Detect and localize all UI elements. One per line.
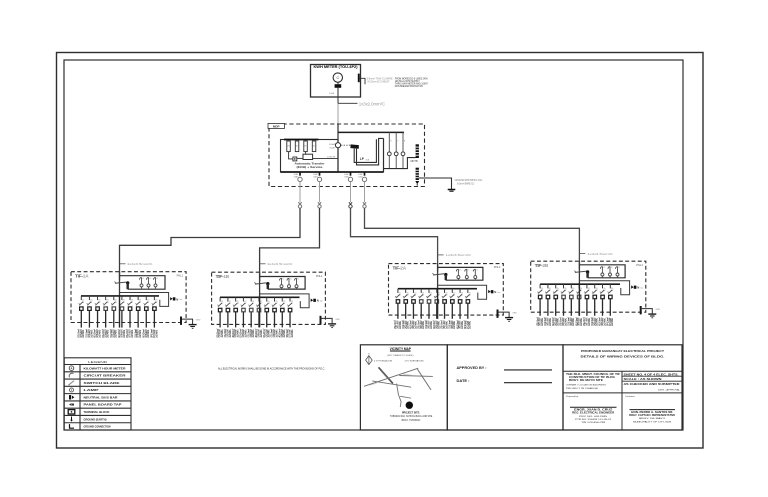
fuse element bbox=[600, 267, 605, 278]
svg-text:15: 15 bbox=[603, 267, 605, 269]
branch circuit 4 bbox=[418, 289, 425, 319]
branch circuit 6 bbox=[576, 284, 583, 316]
interlock dashed link bbox=[341, 144, 351, 146]
svg-text:TIF-1A: TIF-1A bbox=[75, 274, 89, 279]
riser symbol feeder 3 bbox=[349, 187, 438, 272]
svg-text:DATE :: DATE : bbox=[457, 379, 470, 383]
circuit label 6 bbox=[574, 317, 583, 326]
svg-text:DETAILS OF WIRING DEVICES OF B: DETAILS OF WIRING DEVICES OF BLDG. bbox=[581, 355, 665, 359]
svg-text:15: 15 bbox=[290, 279, 292, 281]
ATS compartment box bbox=[281, 140, 339, 173]
panel corner tag bbox=[177, 273, 184, 277]
svg-text:15: 15 bbox=[476, 270, 478, 272]
svg-text:SCALE : AS SHOWN: SCALE : AS SHOWN bbox=[624, 378, 663, 381]
panel main breaker bbox=[114, 281, 129, 284]
branch circuit 3 bbox=[553, 284, 560, 316]
fuse cutout box bbox=[120, 276, 166, 290]
ground rod electrode bbox=[448, 190, 456, 192]
legend row 6 bbox=[69, 403, 122, 407]
branch circuit 3 bbox=[411, 289, 418, 319]
sheet outer border bbox=[57, 53, 704, 449]
panel name tag MDP bbox=[268, 123, 285, 128]
fuse element bbox=[139, 277, 144, 288]
circuit label 9 bbox=[141, 329, 150, 338]
circuit label 4 bbox=[416, 320, 425, 329]
svg-text:TIF-2A: TIF-2A bbox=[393, 265, 407, 270]
svg-text:GROUND ROD 5/8"Ø x 3.0m: GROUND ROD 5/8"Ø x 3.0m bbox=[455, 180, 483, 182]
svg-text:TERMINAL BLOCK: TERMINAL BLOCK bbox=[84, 410, 110, 414]
svg-text:1x4x3.5mm²C: 1x4x3.5mm²C bbox=[267, 262, 293, 266]
branch circuit 3 bbox=[95, 296, 102, 328]
svg-text:1x3x2.0mm²C: 1x3x2.0mm²C bbox=[359, 102, 385, 107]
svg-text:PRC NO. 0012345: PRC NO. 0012345 bbox=[579, 416, 608, 418]
svg-text:GRD: GRD bbox=[656, 309, 661, 311]
panel feed conductor bbox=[578, 261, 580, 284]
riser symbol feeder 4 bbox=[363, 187, 580, 270]
neutral loop wiring bbox=[579, 281, 629, 295]
circuit label 6 bbox=[117, 329, 126, 338]
feeder breaker F1 bbox=[294, 172, 303, 187]
feed through conductor bbox=[578, 284, 580, 316]
panel main breaker bbox=[254, 282, 269, 285]
service feeder wire bbox=[337, 97, 339, 124]
neutral bar N bbox=[170, 297, 183, 301]
svg-text:15: 15 bbox=[156, 278, 158, 280]
svg-text:REG. ELECTRICAL ENGINEER: REG. ELECTRICAL ENGINEER bbox=[572, 412, 614, 415]
circuit label 7 bbox=[262, 329, 271, 338]
legend row 9 bbox=[70, 424, 111, 428]
feeder size tag bbox=[120, 262, 154, 266]
circuit label 4 bbox=[239, 329, 248, 338]
panel feed conductor bbox=[437, 264, 439, 289]
breaker to fuse box jumper bbox=[267, 284, 269, 289]
svg-text:GRD: GRD bbox=[512, 313, 517, 315]
panel bus bbox=[220, 296, 300, 298]
branch circuit 4 bbox=[103, 296, 110, 328]
svg-text:1x4x3.5mm²C: 1x4x3.5mm²C bbox=[127, 262, 153, 266]
neutral loop wiring bbox=[120, 293, 169, 307]
svg-text:◂ TO SURIGAO RD.: ◂ TO SURIGAO RD. bbox=[405, 359, 425, 362]
legend table bbox=[64, 358, 131, 430]
svg-text:GROUND CONNECTION: GROUND CONNECTION bbox=[84, 425, 111, 429]
svg-text:PROPOSED BARANGAY ELECTRICAL P: PROPOSED BARANGAY ELECTRICAL PROJECT bbox=[581, 349, 664, 353]
branch circuit 7 bbox=[127, 296, 134, 328]
approval box bbox=[447, 345, 563, 430]
branch circuit 10 bbox=[287, 297, 294, 327]
branch circuit 4 bbox=[241, 297, 248, 327]
svg-text:Automatic Transfer: Automatic Transfer bbox=[295, 161, 325, 165]
svg-text:(ECB) + Service: (ECB) + Service bbox=[297, 165, 324, 169]
branch circuit 8 bbox=[135, 296, 142, 328]
panel feed conductor bbox=[259, 272, 261, 297]
branch circuit 8 bbox=[272, 297, 279, 327]
panel main breaker bbox=[574, 270, 589, 273]
panel ground electrode bbox=[181, 317, 201, 329]
branch circuit 1 bbox=[395, 289, 402, 319]
branch circuit 6 bbox=[434, 289, 441, 319]
panel bus bbox=[398, 288, 477, 290]
meter test block bbox=[335, 82, 342, 87]
svg-text:PROJECT IN CHARGE: PROJECT IN CHARGE bbox=[566, 387, 599, 390]
svg-text:PNL4: PNL4 bbox=[636, 263, 643, 267]
svg-text:Prepared by :: Prepared by : bbox=[566, 395, 580, 398]
fuse element bbox=[465, 269, 470, 280]
branch circuit 8 bbox=[592, 284, 599, 316]
panel main breaker bbox=[432, 273, 447, 276]
branch circuit 1 bbox=[79, 296, 86, 328]
panel bus bbox=[540, 283, 620, 285]
svg-text:MDTB: MDTB bbox=[411, 159, 418, 163]
sheet data block bbox=[624, 373, 681, 391]
legend row 1 bbox=[69, 366, 125, 371]
svg-text:bar: bar bbox=[498, 291, 501, 294]
circuit label 2 bbox=[223, 329, 232, 338]
map roads bbox=[364, 367, 433, 407]
svg-text:15: 15 bbox=[297, 279, 299, 281]
contactor MC3 bbox=[304, 141, 308, 152]
title block frame bbox=[563, 345, 682, 430]
branch circuit 4 bbox=[561, 284, 568, 316]
circuit label 3 bbox=[93, 329, 102, 338]
svg-text:15: 15 bbox=[282, 279, 284, 281]
project site dot bbox=[406, 402, 413, 409]
legend row 3 bbox=[68, 381, 119, 386]
svg-text:NEUTRAL BUS BAR: NEUTRAL BUS BAR bbox=[84, 395, 118, 399]
svg-text:N: N bbox=[176, 297, 178, 301]
svg-text:GRD: GRD bbox=[196, 320, 201, 322]
legend row 4 bbox=[70, 388, 99, 392]
branch circuit 7 bbox=[442, 289, 449, 319]
svg-text:1x4x3.5mm²C: 1x4x3.5mm²C bbox=[587, 252, 613, 256]
svg-text:IN 25mm Ø CONDUIT: IN 25mm Ø CONDUIT bbox=[368, 82, 391, 84]
svg-text:PROJECT SITE:: PROJECT SITE: bbox=[402, 412, 420, 415]
svg-text:Conforme :: Conforme : bbox=[625, 395, 636, 398]
branch circuit 5 bbox=[569, 284, 576, 316]
general note bbox=[218, 367, 325, 371]
feeder size tag bbox=[260, 262, 294, 266]
panel ground electrode bbox=[641, 306, 661, 318]
circuit label 5 bbox=[424, 320, 433, 329]
map caption bbox=[390, 412, 433, 422]
svg-text:600AF: 600AF bbox=[329, 143, 336, 146]
circuit label 9 bbox=[598, 317, 607, 326]
svg-text:C: C bbox=[336, 76, 339, 80]
circuit label 7 bbox=[440, 320, 449, 329]
neutral bar N bbox=[311, 299, 324, 303]
service spec note bbox=[395, 77, 428, 88]
fuse element bbox=[146, 277, 151, 288]
feeder breaker F4 bbox=[358, 172, 367, 187]
ATS caption bbox=[295, 161, 325, 169]
panel label TIF-1A bbox=[75, 274, 89, 279]
circuit label 4 bbox=[559, 317, 568, 326]
svg-text:AS CHECKED AND SUBMITTED: AS CHECKED AND SUBMITTED bbox=[624, 383, 681, 386]
svg-text:15: 15 bbox=[149, 278, 151, 280]
branch circuit 2 bbox=[87, 296, 94, 328]
panel ground electrode bbox=[498, 310, 518, 322]
neutral loop wiring bbox=[438, 285, 487, 299]
svg-text:2x20AWG: 2x20AWG bbox=[610, 318, 614, 326]
circuit label 2 bbox=[543, 317, 552, 326]
fuse cutout box bbox=[438, 267, 483, 280]
svg-text:LEGEND: LEGEND bbox=[88, 360, 108, 364]
svg-text:GRD: GRD bbox=[335, 319, 340, 321]
feed through conductor bbox=[259, 297, 261, 327]
svg-text:BRGY. CAPTAIN / REPRESENTATIVE: BRGY. CAPTAIN / REPRESENTATIVE bbox=[629, 414, 676, 417]
contactor MC4 bbox=[312, 141, 316, 152]
branch circuit 7 bbox=[584, 284, 591, 316]
circuit label 8 bbox=[447, 320, 456, 329]
svg-text:TUBORAN FLD. SCHOOL BLDG. AND: TUBORAN FLD. SCHOOL BLDG. AND SITE bbox=[390, 415, 433, 418]
aux contact bbox=[293, 157, 297, 161]
branch circuit 10 bbox=[608, 284, 615, 316]
fuse element bbox=[615, 267, 620, 278]
svg-text:500AT: 500AT bbox=[329, 146, 336, 149]
circuit label 1 bbox=[215, 329, 224, 338]
circuit label 10 bbox=[606, 317, 615, 326]
grounding conductor run bbox=[419, 178, 452, 189]
fuse element bbox=[294, 278, 299, 289]
svg-text:bar: bar bbox=[320, 300, 323, 303]
svg-text:HON. PEDRO A. SANTOS SR.: HON. PEDRO A. SANTOS SR. bbox=[631, 411, 673, 414]
svg-text:8.0mm² BARE CU: 8.0mm² BARE CU bbox=[457, 183, 475, 186]
fuse element bbox=[279, 278, 284, 289]
svg-text:BRGY. DE MAYO: BRGY. DE MAYO bbox=[639, 417, 665, 420]
meter M1 dial bbox=[333, 73, 342, 82]
legend row 2 bbox=[69, 373, 125, 377]
svg-text:(NOT DRAWN TO SCALE): (NOT DRAWN TO SCALE) bbox=[387, 354, 413, 357]
circuit label 10 bbox=[285, 329, 294, 338]
branch circuit 6 bbox=[119, 296, 126, 328]
meter rating label bbox=[329, 92, 334, 95]
svg-text:TIN 123-456-789: TIN 123-456-789 bbox=[581, 422, 606, 424]
branch circuit 8 bbox=[449, 289, 456, 319]
main panel MDP dashed enclosure bbox=[269, 124, 425, 187]
panel corner tag bbox=[494, 265, 501, 269]
svg-text:PNL3: PNL3 bbox=[494, 265, 501, 269]
control relay coil K1 bbox=[303, 154, 313, 159]
svg-text:VICINITY MAP: VICINITY MAP bbox=[390, 347, 412, 351]
fuse element bbox=[473, 269, 478, 280]
prepared by cell bbox=[566, 395, 617, 424]
panel label TIF-1B bbox=[216, 274, 230, 279]
panel TIF-2A dashed enclosure bbox=[389, 264, 504, 316]
circuit label 8 bbox=[590, 317, 599, 326]
pilot lamp bus bbox=[338, 131, 404, 133]
svg-text:KWH METER (TOU-4P2): KWH METER (TOU-4P2) bbox=[314, 65, 358, 69]
svg-text:THE BLK. MNGT. COUNCIL OF TIF: THE BLK. MNGT. COUNCIL OF TIF bbox=[566, 373, 621, 376]
feed through conductor bbox=[437, 289, 439, 319]
control label bbox=[327, 155, 336, 158]
svg-text:2-8mm² THW CU WIRE: 2-8mm² THW CU WIRE bbox=[367, 78, 394, 81]
svg-text:MAIN BREAKER PROTECTION: MAIN BREAKER PROTECTION bbox=[395, 85, 423, 88]
owner block bbox=[566, 373, 621, 390]
neutral loop wiring bbox=[260, 294, 310, 308]
terminal block MDTB bbox=[416, 144, 419, 158]
svg-text:15: 15 bbox=[459, 270, 461, 272]
svg-text:100A: 100A bbox=[329, 92, 334, 95]
panel TIF-1A dashed enclosure bbox=[71, 272, 186, 323]
pilot lamp R bbox=[387, 132, 392, 168]
fuse cutout box bbox=[579, 265, 625, 278]
svg-text:MDP: MDP bbox=[273, 124, 280, 128]
svg-text:DWG - APPROVAL: DWG - APPROVAL bbox=[658, 389, 681, 392]
circuit label 1 bbox=[77, 329, 86, 338]
breaker to fuse box jumper bbox=[586, 272, 588, 278]
circuit label 9 bbox=[455, 320, 464, 329]
circuit label 2 bbox=[85, 329, 94, 338]
svg-text:CONSTRUCTION OF TIF BLDG: CONSTRUCTION OF TIF BLDG bbox=[569, 377, 615, 379]
panel corner tag bbox=[636, 263, 643, 267]
circuit label 10 bbox=[150, 329, 159, 338]
contactor blade bbox=[350, 144, 359, 148]
breaker to fuse box jumper bbox=[445, 275, 447, 281]
svg-text:bar: bar bbox=[641, 286, 644, 289]
contactor MC1 bbox=[287, 141, 291, 152]
branch circuit 2 bbox=[545, 284, 552, 316]
circuit label 5 bbox=[109, 329, 118, 338]
circuit label 5 bbox=[246, 329, 255, 338]
svg-text:PNL1: PNL1 bbox=[177, 273, 184, 277]
svg-text:15: 15 bbox=[618, 267, 620, 269]
branch circuit 1 bbox=[217, 297, 224, 327]
feeder breaker F2 bbox=[313, 172, 322, 187]
svg-text:1x4x3.5mm²C: 1x4x3.5mm²C bbox=[446, 253, 472, 257]
feeder size tag bbox=[579, 252, 613, 256]
feeder breaker F3 bbox=[344, 172, 353, 187]
circuit label 3 bbox=[551, 317, 560, 326]
svg-text:2x20AWG: 2x20AWG bbox=[154, 330, 158, 338]
road names bbox=[369, 371, 413, 387]
svg-text:APPROVED BY :: APPROVED BY : bbox=[457, 366, 487, 370]
MDTB label bbox=[411, 159, 418, 163]
branch circuit 9 bbox=[457, 289, 464, 319]
circuit label 3 bbox=[409, 320, 418, 329]
circuit label 1 bbox=[393, 320, 402, 329]
fuse element bbox=[153, 277, 158, 288]
circuit label 10 bbox=[463, 320, 472, 329]
vicinity map box bbox=[360, 345, 447, 430]
neutral bar N bbox=[488, 290, 501, 294]
feeder size leader bbox=[338, 102, 385, 107]
svg-text:to MDTB: to MDTB bbox=[327, 155, 336, 158]
circuit label 3 bbox=[231, 329, 240, 338]
branch circuit 10 bbox=[465, 289, 472, 319]
svg-text:TIF-2B: TIF-2B bbox=[535, 263, 549, 268]
panel label TIF-2B bbox=[535, 263, 549, 268]
ground note bbox=[455, 180, 483, 186]
fuse element bbox=[608, 267, 613, 278]
wire meter to box bottom bbox=[337, 88, 339, 97]
panel corner tag bbox=[316, 274, 323, 278]
svg-text:CIRCUIT BREAKER: CIRCUIT BREAKER bbox=[84, 374, 126, 378]
svg-text:N: N bbox=[494, 290, 496, 294]
ground terminal bar bbox=[415, 168, 419, 186]
svg-text:15: 15 bbox=[467, 270, 469, 272]
branch circuit 2 bbox=[403, 289, 410, 319]
conforme cell bbox=[625, 395, 676, 423]
fuse element bbox=[287, 278, 292, 289]
circuit label 5 bbox=[567, 317, 576, 326]
kwh meter enclosure bbox=[311, 65, 361, 98]
lamp collector wire bbox=[384, 158, 416, 169]
panel TIF-2B dashed enclosure bbox=[531, 261, 646, 312]
svg-text:MUNICIPALITY OF CITY, SDN: MUNICIPALITY OF CITY, SDN bbox=[633, 420, 672, 423]
fuse cutout box bbox=[260, 277, 306, 290]
LP tag bbox=[360, 157, 370, 162]
sheet inner border bbox=[64, 60, 683, 430]
main breaker CB-M bbox=[329, 143, 341, 150]
circuit label 6 bbox=[254, 329, 263, 338]
svg-text:ENGR. JUAN D. CRUZ: ENGR. JUAN D. CRUZ bbox=[574, 409, 613, 412]
fuse element bbox=[456, 269, 461, 280]
svg-text:SHEET NO. 4 OF 4 ELEC. SHTS.: SHEET NO. 4 OF 4 ELEC. SHTS. bbox=[624, 373, 680, 376]
legend row 8 bbox=[70, 417, 106, 422]
panel feed conductor bbox=[119, 272, 121, 296]
control wiring bbox=[297, 157, 338, 159]
svg-text:BRGY. TUBORAN: BRGY. TUBORAN bbox=[402, 419, 421, 422]
branch circuit 6 bbox=[256, 297, 263, 327]
circuit label 8 bbox=[133, 329, 142, 338]
branch circuit 3 bbox=[233, 297, 240, 327]
svg-text:2x20AWG: 2x20AWG bbox=[468, 321, 472, 329]
branch circuit 2 bbox=[225, 297, 232, 327]
circuit label 9 bbox=[277, 329, 286, 338]
branch circuit 1 bbox=[537, 284, 544, 316]
map direction labels bbox=[374, 359, 425, 362]
circuit label 7 bbox=[582, 317, 591, 326]
svg-text:◂ TO POBLACION: ◂ TO POBLACION bbox=[374, 359, 392, 362]
contactor MC2 bbox=[295, 141, 299, 152]
panel TIF-1B dashed enclosure bbox=[212, 272, 326, 324]
branch circuit 5 bbox=[111, 296, 118, 328]
panel label TIF-2A bbox=[393, 265, 407, 270]
branch circuit 5 bbox=[426, 289, 433, 319]
contactor loop wiring bbox=[354, 138, 383, 165]
svg-text:N: N bbox=[317, 299, 319, 303]
riser symbol feeder 1 bbox=[120, 187, 302, 280]
riser symbol feeder 2 bbox=[260, 187, 322, 282]
neutral bar N bbox=[631, 285, 644, 289]
panel ground electrode bbox=[321, 316, 341, 328]
svg-text:LAMP: LAMP bbox=[84, 388, 99, 392]
north arrow bbox=[366, 353, 373, 364]
contactor drop stubs bbox=[289, 152, 306, 159]
circuit label 7 bbox=[125, 329, 134, 338]
branch circuit 10 bbox=[152, 296, 159, 328]
project title bbox=[581, 349, 665, 358]
panel bus bbox=[81, 295, 159, 297]
main feed conductor bbox=[337, 124, 339, 172]
svg-text:2x20AWG: 2x20AWG bbox=[290, 330, 294, 338]
svg-text:BRGY. DE MAYO SITE: BRGY. DE MAYO SITE bbox=[569, 379, 604, 382]
load side riser bbox=[383, 138, 385, 172]
branch circuit 9 bbox=[143, 296, 150, 328]
breaker to fuse box jumper bbox=[126, 283, 128, 289]
svg-text:15: 15 bbox=[142, 278, 144, 280]
svg-text:OWNER / LOCATION ADDRESS: OWNER / LOCATION ADDRESS bbox=[566, 383, 607, 386]
feeder size tag bbox=[438, 253, 472, 257]
svg-text:KILOWATT HOUR METER: KILOWATT HOUR METER bbox=[84, 366, 126, 370]
service drop note bbox=[367, 78, 394, 84]
service entrance clamp bbox=[358, 74, 365, 85]
circuit label 8 bbox=[270, 329, 279, 338]
circuit label 1 bbox=[535, 317, 544, 326]
svg-text:GROUND (EARTH): GROUND (EARTH) bbox=[84, 417, 107, 421]
pilot lamp B bbox=[401, 132, 406, 168]
branch circuit 9 bbox=[279, 297, 286, 327]
svg-text:15: 15 bbox=[611, 267, 613, 269]
